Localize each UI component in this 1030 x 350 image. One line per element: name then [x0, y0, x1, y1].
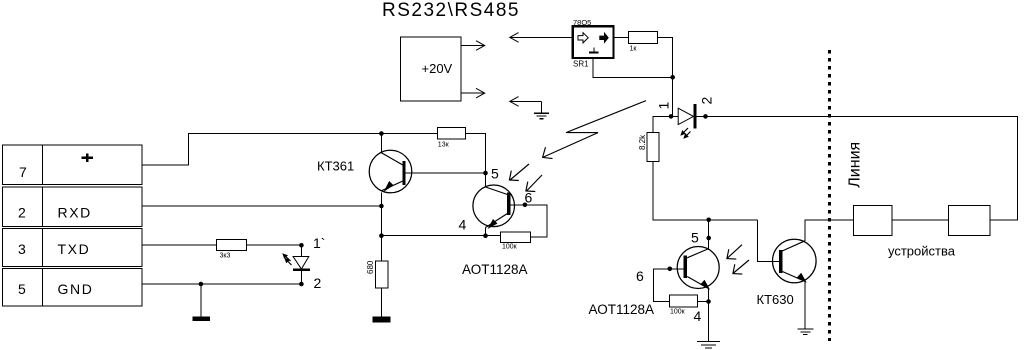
- svg-text:КТ630: КТ630: [757, 292, 794, 307]
- wire collector down: [380, 193, 382, 261]
- LED1 opto diode: [300, 245, 302, 256]
- svg-text:GND: GND: [58, 281, 94, 297]
- resistor R 13k: [437, 127, 465, 139]
- wire 7805 out to 1k: [614, 37, 629, 39]
- wire 680 to ground: [381, 288, 383, 316]
- regulator U1 7805 box: [573, 26, 614, 58]
- LED2 light arrows: [680, 128, 690, 139]
- wire 1k to LED2 drop: [658, 38, 673, 117]
- node pin4 rail: [379, 233, 384, 238]
- svg-text:RS232\RS485: RS232\RS485: [382, 0, 520, 21]
- transistor Q1 KT361: [369, 150, 412, 193]
- wire TXD to resistor: [142, 244, 217, 246]
- svg-text:3: 3: [18, 241, 26, 257]
- arrow ground stub: [511, 100, 542, 102]
- wire anode to 8k2: [653, 116, 671, 132]
- dashed line boundary: [828, 50, 831, 341]
- node opto1 emitter: [483, 233, 488, 238]
- arrow out bottom of +20V: [461, 92, 484, 94]
- opto-transistor U3 AOT1128A: [677, 247, 719, 289]
- svg-text:7: 7: [19, 164, 27, 180]
- svg-text:SR1: SR1: [573, 60, 589, 69]
- svg-text:3к3: 3к3: [220, 253, 231, 260]
- plus label: [82, 157, 93, 160]
- wire base rail to KT630: [757, 220, 778, 261]
- wire KT630 collector: [805, 220, 854, 241]
- node RXD collector: [379, 204, 384, 209]
- svg-text:1: 1: [656, 102, 672, 110]
- node opto1 base: [523, 203, 528, 208]
- svg-text:680: 680: [366, 260, 375, 274]
- svg-text:RXD: RXD: [58, 205, 92, 221]
- resistor R 100k opto1: [501, 232, 531, 243]
- node opto2 tap: [706, 218, 711, 223]
- svg-text:100к: 100к: [502, 244, 518, 251]
- 7805 inner ground: [593, 48, 595, 53]
- svg-text:АОТ1128А: АОТ1128А: [462, 262, 528, 277]
- svg-text:1`: 1`: [313, 235, 325, 251]
- ground bar under 680: [372, 317, 390, 323]
- svg-text:АОТ1128А: АОТ1128А: [589, 302, 655, 317]
- resistor R 100k opto2: [669, 295, 697, 307]
- wire plus row to top rail: [142, 134, 437, 166]
- node under 1k: [670, 75, 675, 80]
- svg-text:78О5: 78О5: [573, 18, 591, 27]
- node LED1 anode: [299, 243, 304, 248]
- svg-text:2: 2: [314, 275, 322, 291]
- svg-text:5: 5: [691, 230, 699, 246]
- node opto2 base: [668, 267, 673, 272]
- svg-text:6: 6: [525, 190, 533, 206]
- wire GND row: [142, 283, 301, 285]
- arrow into 7805: [511, 36, 574, 38]
- wire 13k to node5 drop: [465, 134, 485, 174]
- light arrows at opto2: [728, 245, 743, 258]
- ground bar GND: [192, 316, 209, 321]
- svg-text:Линия: Линия: [847, 142, 864, 188]
- light arrows at opto1: [510, 164, 529, 180]
- svg-text:TXD: TXD: [58, 241, 91, 257]
- power box +20V: [401, 37, 462, 101]
- resistor R 3k3: [217, 240, 247, 251]
- node LED1 cathode: [299, 282, 304, 287]
- wire 3k3 to LED1: [247, 244, 302, 246]
- LED2 opto diode: [673, 115, 679, 117]
- svg-text:1к: 1к: [630, 46, 638, 53]
- wire between device boxes: [892, 219, 948, 221]
- svg-text:4: 4: [459, 217, 467, 233]
- wire GND drop: [200, 284, 202, 316]
- connector J1 (DB9) rows: [3, 145, 143, 185]
- ground under arrow: [534, 113, 549, 119]
- node GND drop: [199, 282, 204, 287]
- wire 7805 gnd to node: [593, 58, 673, 77]
- node opto2 emitter: [706, 299, 711, 304]
- node emitter KT361: [379, 131, 384, 136]
- svg-text:5: 5: [18, 281, 26, 297]
- wire opto2 emitter to ground: [708, 289, 710, 342]
- svg-text:КТ361: КТ361: [317, 159, 354, 174]
- ground under opto2: [697, 340, 720, 342]
- pin 6 wire opto1: [510, 205, 547, 237]
- svg-text:4: 4: [694, 308, 702, 324]
- wire opto2 pin5: [708, 220, 710, 249]
- svg-text:6: 6: [636, 268, 644, 284]
- wire KT630 emitter to ground: [804, 282, 806, 329]
- svg-text:2: 2: [699, 97, 715, 105]
- device box 2: [949, 206, 990, 236]
- device box 1: [854, 206, 893, 236]
- node LED2 cathode: [703, 114, 708, 119]
- resistor R 8.2k: [647, 133, 659, 162]
- svg-text:100к: 100к: [670, 309, 686, 316]
- ground under KT630: [797, 328, 813, 330]
- node opto1 pin5: [483, 171, 488, 176]
- resistor R 1k: [629, 32, 658, 44]
- svg-text:5: 5: [491, 166, 499, 182]
- wire RXD to collector: [142, 205, 381, 207]
- svg-text:устройства: устройства: [888, 244, 956, 259]
- node LED2 anode: [669, 114, 674, 119]
- wire LED2 to line and devices: [696, 116, 1017, 220]
- 7805 input arrow (open): [578, 33, 588, 43]
- svg-text:8.2k: 8.2k: [638, 134, 647, 150]
- resistor R 680: [376, 261, 388, 288]
- arrow out top of +20V: [461, 45, 484, 47]
- LED1 light arrows: [282, 253, 291, 265]
- svg-text:13к: 13к: [438, 142, 450, 149]
- svg-text:2: 2: [18, 205, 26, 221]
- node opto2 pin5: [706, 236, 711, 241]
- wire 100k to emitter: [697, 301, 708, 303]
- 7805 output arrow (filled): [599, 32, 609, 44]
- pin 6 wire opto2: [654, 269, 684, 302]
- opto-transistor U2 AOT1128A: [473, 185, 515, 227]
- wire pin4 rail: [381, 235, 500, 237]
- svg-text:+20V: +20V: [422, 61, 453, 76]
- wire 8k2 to base rail: [653, 161, 757, 220]
- transistor Q2 KT630: [773, 239, 817, 283]
- zigzag arrow: [544, 101, 647, 157]
